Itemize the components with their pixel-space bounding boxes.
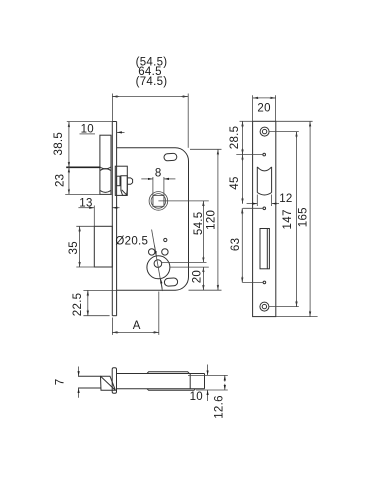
svg-text:165: 165 (297, 207, 309, 227)
dim 22.5 (72, 290, 117, 316)
svg-text:38.5: 38.5 (53, 132, 65, 156)
small hole 2 reference line (243, 207, 263, 209)
ear circle left (149, 249, 155, 255)
dim 8 (141, 168, 175, 207)
latch mechanism block slant line (122, 190, 127, 195)
svg-text:A: A (133, 320, 141, 332)
dim 120 (189, 149, 222, 290)
faceplate (side view) (112, 368, 116, 394)
latch head wedge (101, 376, 116, 390)
small hole 1 reference line (236, 154, 263, 156)
svg-text:12: 12 (279, 193, 292, 205)
svg-text:20: 20 (191, 270, 203, 283)
strike plate outline (253, 121, 276, 316)
svg-text:7: 7 (54, 379, 66, 386)
latch mechanism nose cam (127, 178, 132, 184)
latch cutout in plate (257, 167, 271, 195)
deadbolt front face (94, 226, 112, 267)
spindle centre reference line (158, 200, 208, 202)
bottom screw oval slot (164, 278, 178, 287)
dim 7 (54, 367, 78, 398)
cover top line (147, 372, 189, 374)
bottom screw hole (260, 302, 269, 311)
dim 165 (276, 121, 318, 316)
lock case (front view) (117, 148, 189, 290)
cylinder hole big circle (147, 256, 170, 279)
dim 28.5 (229, 121, 253, 154)
cylinder reference line lower (170, 266, 209, 268)
svg-text:22.5: 22.5 (72, 293, 84, 317)
dim 38.5 (53, 122, 112, 168)
dim 20 (cylinder to case bottom) (191, 267, 203, 290)
dim 63 (230, 208, 242, 282)
dim A backset (112, 292, 158, 335)
small hole 3 (263, 281, 266, 284)
svg-text:63: 63 (230, 238, 242, 251)
svg-text:8: 8 (155, 168, 162, 180)
svg-text:10: 10 (190, 391, 203, 403)
svg-text:12.6: 12.6 (213, 395, 225, 419)
svg-text:35: 35 (68, 241, 80, 254)
dim 45 (229, 155, 243, 204)
dim 147 (282, 132, 296, 307)
svg-text:Ø20.5: Ø20.5 (115, 236, 148, 248)
dim 10 (latch) (80, 123, 125, 135)
small hole 1 (263, 153, 266, 156)
ear circle right (162, 249, 168, 255)
tiny circle (164, 238, 167, 241)
faceplate (front view) (112, 122, 116, 316)
small hole 2 (263, 207, 266, 210)
deadbolt cutout inner edge (266, 229, 268, 269)
deadbolt cutout in plate (260, 229, 269, 269)
spindle square hole (153, 196, 164, 207)
dim 23 (54, 167, 111, 194)
latch bar top line (78, 375, 101, 377)
svg-text:23: 23 (54, 174, 66, 187)
latch mechanism housing in case (115, 166, 127, 195)
dim 13 (78, 198, 119, 227)
dim line 74.5 (112, 94, 188, 148)
svg-text:28.5: 28.5 (229, 126, 241, 150)
svg-text:(74.5): (74.5) (136, 76, 168, 88)
dim 12.6 (side view) (213, 375, 225, 418)
case step line (side view) (189, 374, 191, 389)
latch bolt front face (100, 135, 111, 194)
case right end (side view) (204, 374, 206, 389)
spindle follower inner circle (151, 194, 166, 209)
spindle follower outer circle (149, 192, 168, 211)
case bottom line (side view) (117, 388, 205, 390)
svg-text:147: 147 (282, 209, 294, 229)
small hole 3 reference line (242, 281, 263, 283)
leader line for D20.5 (152, 230, 163, 292)
latch mechanism tall block (121, 176, 127, 196)
cylinder top small circle (154, 260, 162, 268)
top screw hole reference line (269, 131, 299, 133)
svg-text:45: 45 (229, 176, 241, 189)
bottom screw hole reference line (269, 306, 299, 308)
svg-text:120: 120 (205, 210, 217, 230)
dim 35 (68, 226, 94, 267)
top screw hole (260, 127, 269, 136)
svg-text:20: 20 (257, 102, 270, 114)
dim 10 (side view) (188, 365, 228, 404)
dim 54.5 (193, 201, 205, 263)
case top line (side view) (117, 373, 205, 375)
dim 20 (plate width) (253, 95, 276, 121)
latch head bevel line (101, 376, 116, 390)
dim 12 (247, 193, 293, 206)
cover bottom line (147, 389, 196, 391)
latch mechanism small block (117, 176, 120, 186)
top screw oval slot (164, 153, 177, 161)
cylinder reference line upper (162, 261, 207, 263)
latch bar bottom line (78, 387, 101, 389)
